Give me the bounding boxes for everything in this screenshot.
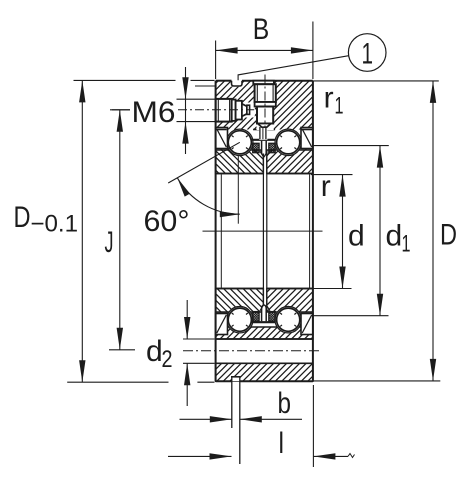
svg-text:J: J xyxy=(105,226,114,259)
svg-text:D: D xyxy=(440,219,457,252)
svg-text:1: 1 xyxy=(335,93,344,120)
svg-text:B: B xyxy=(253,13,269,46)
svg-text:D: D xyxy=(14,201,31,234)
svg-text:2: 2 xyxy=(162,346,173,373)
svg-text:M6: M6 xyxy=(132,96,176,129)
svg-text:1: 1 xyxy=(402,231,411,258)
svg-text:d: d xyxy=(386,219,403,252)
svg-text:60°: 60° xyxy=(144,205,190,238)
svg-text:−0.1: −0.1 xyxy=(30,211,78,238)
svg-text:d: d xyxy=(348,219,365,252)
svg-text:1: 1 xyxy=(361,38,373,71)
svg-text:r: r xyxy=(324,82,334,115)
svg-text:b: b xyxy=(278,387,292,420)
svg-text:r: r xyxy=(321,170,331,203)
svg-text:d: d xyxy=(146,335,163,368)
svg-text:l: l xyxy=(279,427,285,460)
